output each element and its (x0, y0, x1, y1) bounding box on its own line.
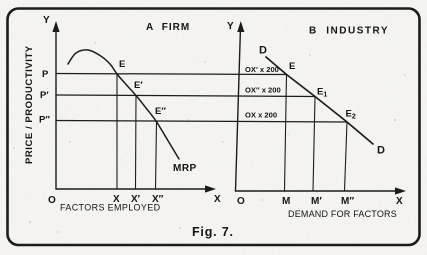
node B: y-axis industry (236, 27, 241, 191)
wire drop E to M (285, 75, 287, 192)
arrow industry y-axis (237, 21, 244, 32)
svg-text:M″: M″ (341, 196, 354, 207)
node A: x-axis firm (56, 188, 211, 190)
svg-text:P′: P′ (40, 90, 49, 101)
svg-text:D: D (259, 45, 267, 57)
svg-text:E″: E″ (155, 106, 166, 117)
wire drop E' to X' (135, 96, 138, 190)
node A: y-axis firm (55, 27, 57, 189)
wire drop E2 to M'' (345, 122, 348, 191)
svg-text:A FIRM: A FIRM (146, 22, 190, 33)
svg-text:E′: E′ (134, 80, 143, 91)
svg-text:FACTORS EMPLOYED: FACTORS EMPLOYED (60, 203, 161, 213)
svg-text:O: O (237, 196, 245, 207)
arrow firm x-axis (205, 185, 216, 192)
svg-text:X: X (396, 196, 403, 207)
wire P'' price line (ends at E2) (56, 121, 347, 123)
svg-text:P: P (42, 69, 49, 80)
svg-text:DEMAND FOR FACTORS: DEMAND FOR FACTORS (288, 209, 397, 219)
demand curve D (266, 57, 373, 144)
svg-text:M: M (282, 196, 290, 207)
scan speckles (decorative) (13, 42, 405, 233)
svg-text:P″: P″ (39, 115, 50, 126)
svg-text:M′: M′ (311, 196, 322, 207)
svg-text:PRICE / PRODUCTIVITY: PRICE / PRODUCTIVITY (24, 45, 35, 164)
wire drop E1 to M' (313, 97, 315, 192)
arrow firm y-axis (52, 21, 59, 32)
svg-text:OX′ x 200: OX′ x 200 (245, 65, 279, 74)
svg-text:OX″ x 200: OX″ x 200 (245, 86, 281, 95)
wire drop E'' to X'' (156, 121, 157, 189)
svg-text:D: D (377, 145, 385, 157)
svg-text:Y: Y (227, 21, 234, 32)
svg-text:OX x 200: OX x 200 (245, 111, 277, 120)
svg-text:MRP: MRP (173, 163, 197, 174)
wire drop E to X (116, 74, 118, 189)
node B: x-axis industry (236, 190, 402, 192)
svg-text:E: E (289, 61, 295, 72)
svg-text:X: X (214, 194, 221, 205)
svg-text:O: O (48, 195, 56, 206)
svg-text:E: E (119, 59, 125, 70)
svg-text:Fig. 7.: Fig. 7. (192, 225, 234, 239)
wire P' price line (ends at E1) (56, 95, 315, 97)
svg-text:Y: Y (43, 15, 50, 26)
MRP curve (68, 50, 179, 159)
svg-text:B INDUSTRY: B INDUSTRY (309, 26, 389, 37)
arrow industry x-axis (395, 187, 406, 194)
wire P price line (shared across A and B, ends at E) (56, 74, 287, 75)
